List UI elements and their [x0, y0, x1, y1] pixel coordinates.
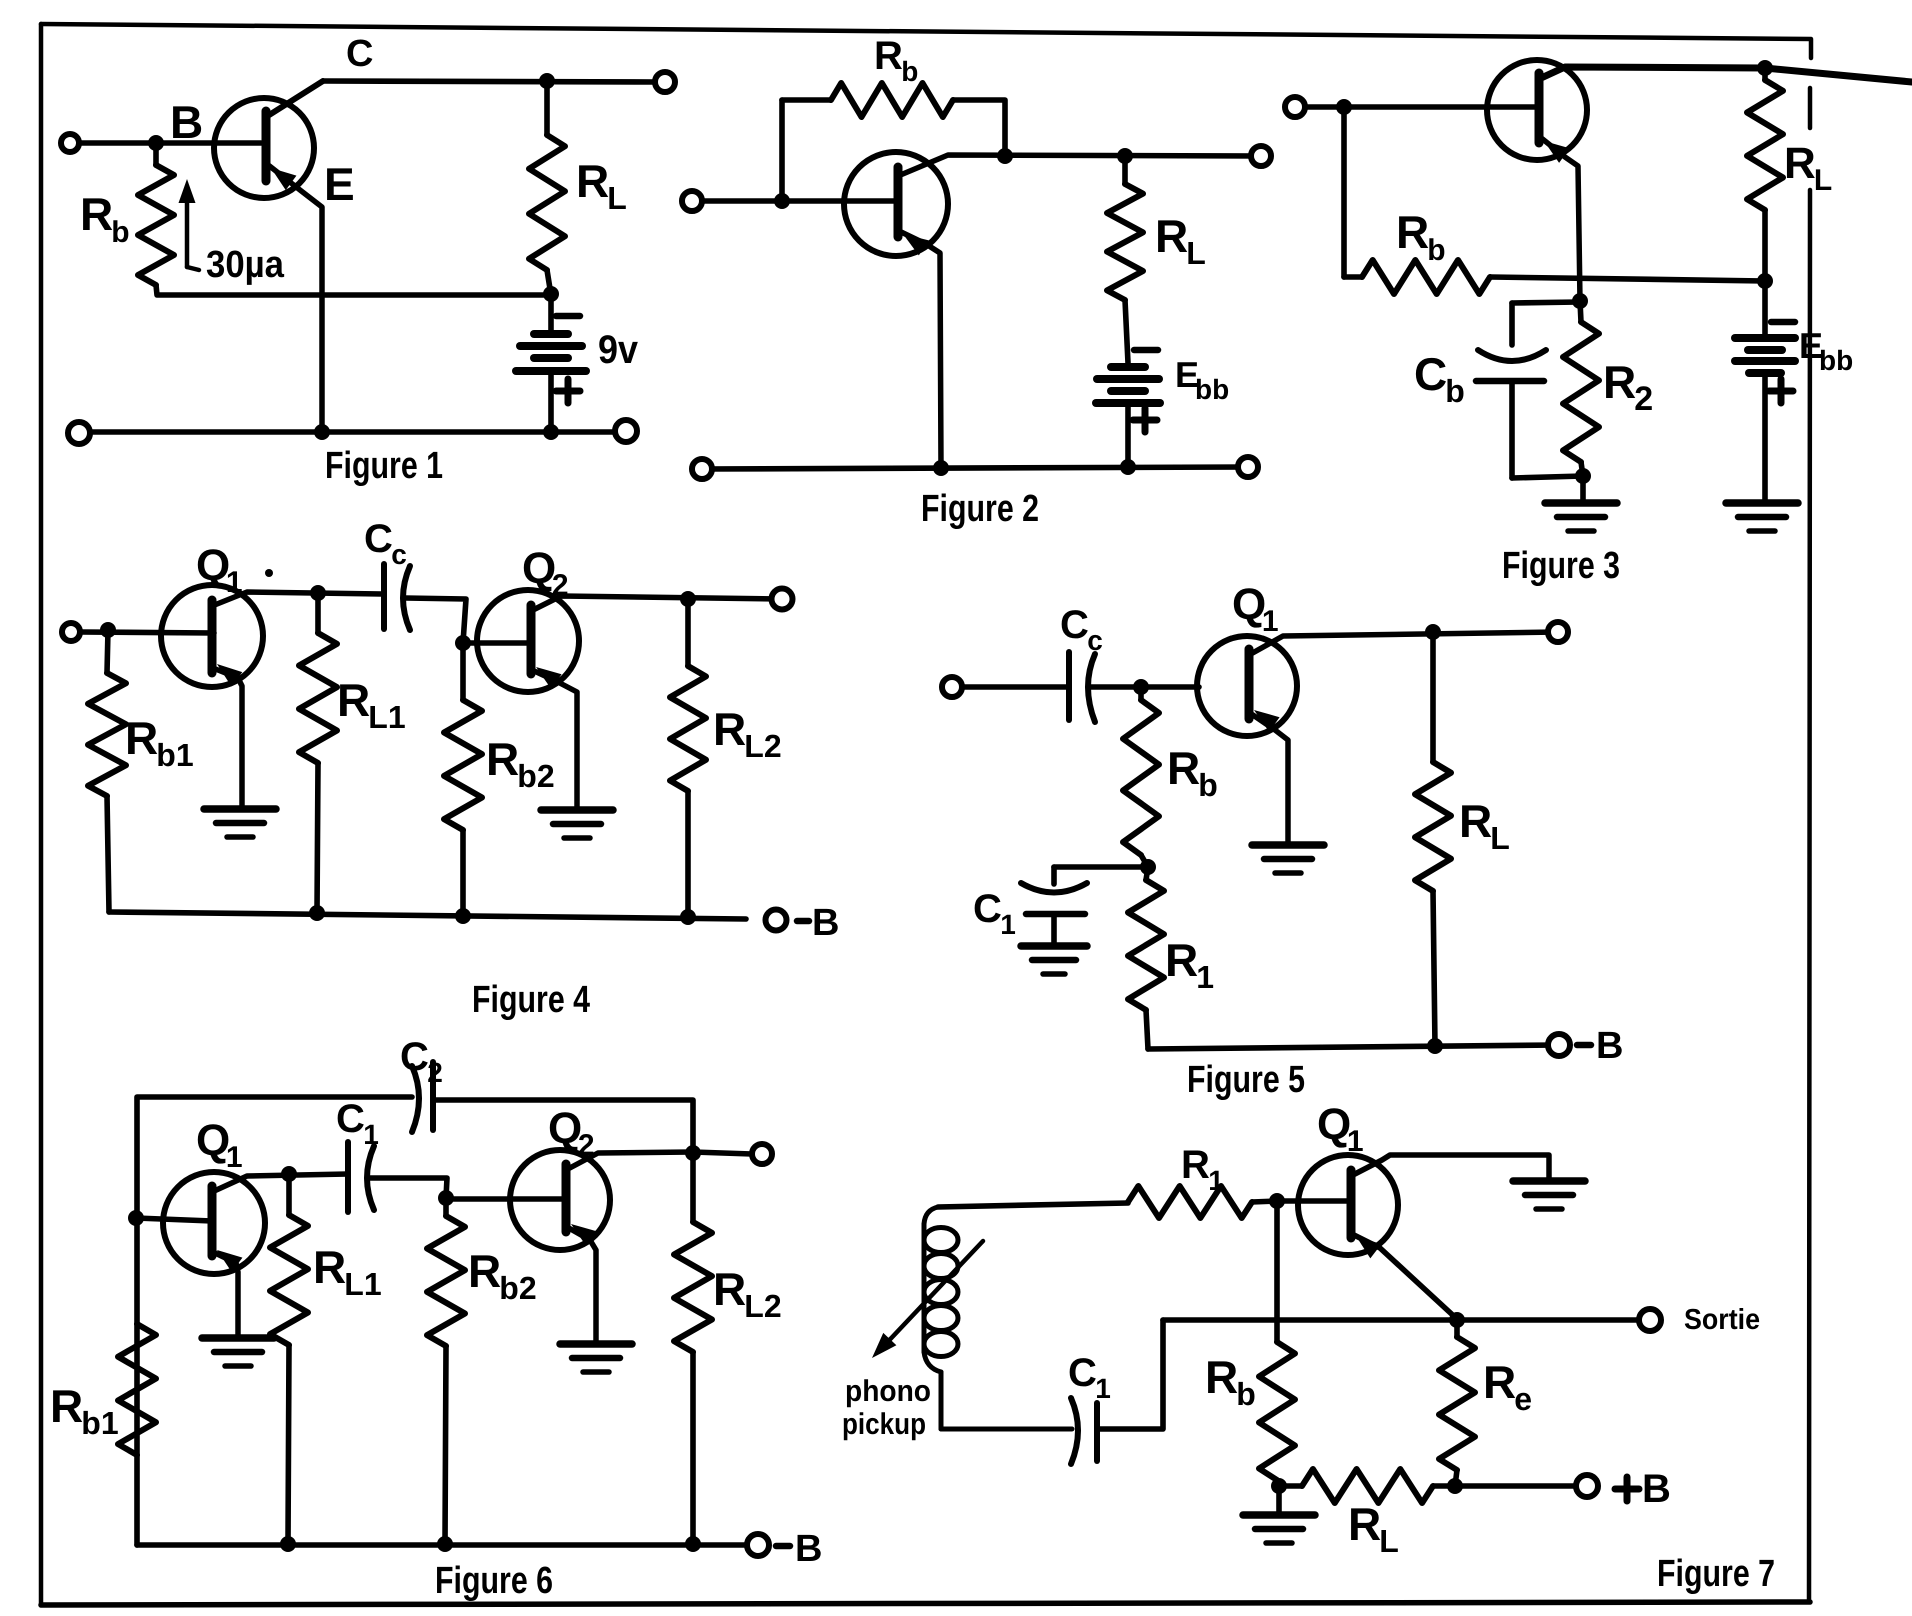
svg-text:R: R [1459, 795, 1492, 847]
svg-text:L2: L2 [744, 728, 781, 764]
svg-text:Figure 7: Figure 7 [1657, 1553, 1775, 1595]
svg-text:R: R [576, 155, 609, 207]
svg-text:R: R [1396, 206, 1429, 258]
svg-text:phono: phono [845, 1375, 931, 1408]
svg-text:e: e [1514, 1381, 1532, 1417]
svg-text:1: 1 [1095, 1373, 1111, 1404]
svg-text:c: c [391, 539, 407, 570]
svg-text:B: B [795, 1528, 822, 1570]
svg-text:B: B [812, 902, 839, 944]
svg-text:Figure 2: Figure 2 [921, 488, 1039, 530]
svg-text:Figure 5: Figure 5 [1187, 1059, 1305, 1101]
svg-text:R: R [337, 674, 370, 726]
svg-text:R: R [713, 703, 746, 755]
svg-text:1: 1 [1196, 959, 1214, 995]
svg-text:R: R [1167, 742, 1200, 794]
svg-text:R: R [486, 733, 519, 785]
svg-text:9v: 9v [598, 328, 639, 372]
svg-text:R: R [1483, 1356, 1516, 1408]
svg-text:C: C [400, 1035, 429, 1079]
svg-text:C: C [336, 1097, 365, 1141]
svg-text:L: L [1814, 164, 1832, 197]
svg-text:1: 1 [1000, 909, 1016, 940]
svg-text:b: b [1427, 234, 1445, 267]
svg-text:Figure 1: Figure 1 [325, 445, 443, 487]
svg-text:L: L [607, 180, 627, 216]
svg-text:B: B [170, 96, 203, 148]
svg-text:L2: L2 [744, 1288, 781, 1324]
svg-text:R: R [874, 34, 903, 78]
svg-text:R: R [313, 1241, 346, 1293]
svg-text:C: C [346, 33, 373, 75]
svg-text:C: C [1414, 348, 1447, 400]
svg-text:R: R [80, 188, 113, 240]
svg-text:b: b [111, 216, 129, 249]
svg-text:b1: b1 [156, 737, 193, 773]
svg-text:2: 2 [578, 1129, 595, 1162]
svg-text:Figure 6: Figure 6 [435, 1560, 553, 1602]
svg-text:c: c [1087, 625, 1103, 656]
svg-text:1: 1 [1208, 1165, 1224, 1196]
svg-text:R: R [1165, 934, 1198, 986]
svg-text:R: R [1205, 1351, 1238, 1403]
svg-text:bb: bb [1819, 345, 1853, 376]
svg-text:R: R [1603, 356, 1636, 408]
svg-text:L: L [1186, 235, 1206, 271]
svg-text:R: R [1155, 210, 1188, 262]
svg-text:2: 2 [427, 1057, 443, 1088]
svg-text:C: C [1060, 603, 1089, 647]
svg-text:1: 1 [363, 1119, 379, 1150]
svg-text:L: L [1490, 820, 1510, 856]
svg-text:R: R [1348, 1498, 1381, 1550]
svg-text:1: 1 [226, 566, 243, 599]
svg-text:R: R [1181, 1143, 1210, 1187]
svg-text:30µa: 30µa [206, 244, 285, 286]
svg-text:Figure 4: Figure 4 [472, 979, 590, 1021]
svg-text:C: C [973, 887, 1002, 931]
svg-text:C: C [364, 517, 393, 561]
svg-text:R: R [713, 1263, 746, 1315]
svg-text:R: R [468, 1245, 501, 1297]
svg-text:2: 2 [1634, 380, 1653, 418]
svg-text:b1: b1 [81, 1405, 118, 1441]
svg-text:bb: bb [1195, 374, 1229, 405]
svg-text:B: B [1642, 1467, 1671, 1511]
svg-text:b: b [1198, 767, 1218, 803]
svg-text:pickup: pickup [842, 1408, 926, 1441]
svg-text:B: B [1596, 1025, 1623, 1067]
svg-text:C: C [1068, 1351, 1097, 1395]
svg-text:1: 1 [226, 1141, 243, 1174]
svg-text:b2: b2 [499, 1270, 536, 1306]
svg-text:b: b [1445, 373, 1465, 409]
svg-text:E: E [324, 158, 355, 210]
svg-text:R: R [50, 1380, 83, 1432]
svg-text:R: R [1784, 139, 1816, 188]
svg-text:Figure 3: Figure 3 [1502, 545, 1620, 587]
svg-text:L1: L1 [368, 699, 405, 735]
svg-text:Sortie: Sortie [1684, 1304, 1760, 1336]
svg-text:1: 1 [1347, 1125, 1364, 1158]
svg-text:b2: b2 [517, 758, 554, 794]
svg-text:L1: L1 [344, 1266, 381, 1302]
svg-text:b: b [1236, 1376, 1256, 1412]
svg-text:1: 1 [1262, 605, 1279, 638]
svg-text:L: L [1379, 1523, 1399, 1559]
svg-text:R: R [125, 712, 158, 764]
svg-text:b: b [901, 56, 918, 87]
svg-text:2: 2 [552, 569, 569, 602]
